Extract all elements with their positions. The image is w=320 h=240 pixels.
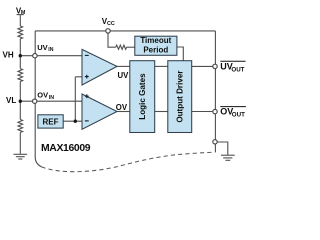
svg-text:OV: OV [116, 103, 128, 112]
svg-text:UV: UV [37, 43, 47, 52]
svg-text:OUT: OUT [231, 66, 244, 73]
svg-text:VL: VL [6, 96, 16, 105]
svg-text:M: M [21, 10, 26, 16]
svg-text:MAX16009: MAX16009 [41, 143, 91, 154]
svg-text:Period: Period [143, 45, 168, 54]
svg-text:Logic Gates: Logic Gates [138, 73, 147, 120]
svg-text:UV: UV [118, 71, 130, 80]
svg-text:VH: VH [3, 50, 14, 59]
svg-text:CC: CC [107, 21, 115, 27]
svg-text:IN: IN [48, 47, 53, 53]
svg-text:REF: REF [43, 118, 59, 127]
svg-text:OUT: OUT [232, 112, 245, 119]
svg-text:IN: IN [49, 95, 54, 101]
svg-text:OV: OV [37, 91, 48, 100]
svg-text:Timeout: Timeout [140, 36, 171, 45]
svg-text:Output Driver: Output Driver [176, 70, 185, 123]
